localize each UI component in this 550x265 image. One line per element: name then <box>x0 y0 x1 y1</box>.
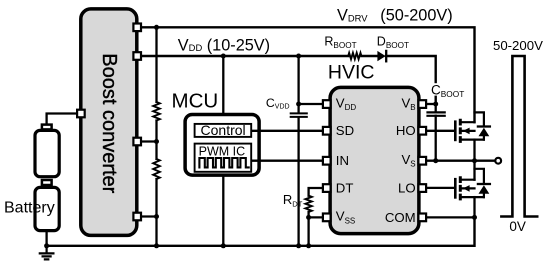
wire VDD pin <box>299 103 322 105</box>
output node circle <box>495 158 501 164</box>
battery cell 1 terminal nub <box>42 125 52 130</box>
capacitor CBOOT <box>435 104 437 161</box>
svg-text:PWM IC: PWM IC <box>199 144 246 158</box>
transistor Q2 (low side MOSFET) <box>455 161 484 218</box>
node rail2/MCU <box>221 54 226 59</box>
wire battery to boost <box>47 114 76 124</box>
node rail1/divider <box>154 25 159 30</box>
svg-text:DT: DT <box>336 180 354 195</box>
wire VB pin <box>427 103 436 105</box>
pin HO <box>418 127 426 135</box>
pin VDD <box>323 100 331 108</box>
node CVDD/ground <box>296 243 301 248</box>
node divider tap lower <box>154 214 159 219</box>
wire SD (MCU to HVIC) <box>252 130 322 132</box>
wire VDRV rail (top) <box>142 27 475 122</box>
MCU block <box>185 115 259 176</box>
svg-text:Control: Control <box>201 122 246 138</box>
resistor divider wire <box>142 27 157 246</box>
node MCU/ground <box>221 243 226 248</box>
svg-text:HVIC: HVIC <box>328 61 375 83</box>
transistor Q1 (high side MOSFET) <box>455 119 484 161</box>
boost input terminal <box>77 110 85 118</box>
svg-text:SD: SD <box>336 123 354 138</box>
resistor R2 (divider bottom) <box>153 159 160 179</box>
output pulse waveform <box>501 56 537 217</box>
battery cell 1 <box>35 130 59 176</box>
boost converter block <box>81 9 137 236</box>
MCU PWM IC box <box>195 144 252 172</box>
pin COM <box>418 214 426 222</box>
svg-text:Battery: Battery <box>4 200 55 217</box>
wire MCU ground <box>222 177 224 246</box>
wire battery to ground rail <box>45 231 47 246</box>
node RDT/ground <box>306 243 311 248</box>
ground symbol <box>40 246 54 260</box>
battery cell 2 <box>35 187 59 230</box>
node VS/MOSFET <box>472 158 477 163</box>
boost terminal t2 <box>133 52 141 60</box>
resistor RDT <box>305 196 311 212</box>
svg-text:MCU: MCU <box>172 89 219 112</box>
svg-text:50-200V: 50-200V <box>493 38 543 53</box>
ground rail <box>47 217 475 245</box>
MCU control box <box>195 124 252 137</box>
node RDT/VSS <box>306 215 311 220</box>
resistor RDT wire <box>309 188 322 246</box>
wire HO to Q1 gate <box>427 130 455 132</box>
PWM square wave glyph <box>199 158 248 167</box>
resistor R1 (divider top) <box>153 102 160 120</box>
svg-text:LO: LO <box>398 180 416 195</box>
wire LO to Q2 gate <box>427 187 455 189</box>
wire MCU VDD supply <box>222 56 224 115</box>
diode Q2 body <box>475 169 490 197</box>
node divider tap upper <box>154 139 159 144</box>
capacitor CVDD <box>297 56 299 246</box>
svg-text:0V: 0V <box>509 219 526 234</box>
wire IN (MCU to HVIC) <box>252 160 322 162</box>
wire VS node <box>427 160 495 162</box>
boost terminal t3 <box>133 138 141 146</box>
wire VDD rail <box>142 56 436 104</box>
diode Q1 body <box>475 112 490 139</box>
pin DT <box>323 184 331 192</box>
pin LO <box>418 184 426 192</box>
resistor RBOOT <box>348 53 361 59</box>
svg-text:Boost converter: Boost converter <box>98 53 120 193</box>
svg-text:HO: HO <box>396 123 416 138</box>
pin IN <box>323 157 331 165</box>
pin VB <box>418 100 426 108</box>
svg-text:COM: COM <box>385 210 416 225</box>
node rail2/CVDD <box>296 54 301 59</box>
diode DBOOT <box>377 51 385 61</box>
node COM/source <box>472 215 477 220</box>
node VB/CBOOT <box>433 102 438 107</box>
wire COM <box>427 216 475 218</box>
HVIC body <box>330 87 419 233</box>
node VS/CBOOT <box>433 158 438 163</box>
svg-text:IN: IN <box>336 153 349 168</box>
node CVDD/VDD pin <box>296 102 301 107</box>
boost terminal t4 <box>133 213 141 221</box>
pin VSS <box>323 214 331 222</box>
boost terminal t1 <box>133 24 141 32</box>
node divider/ground <box>154 243 159 248</box>
pin VS <box>418 157 426 165</box>
pin SD <box>323 127 331 135</box>
node battery/ground <box>44 243 49 248</box>
battery cell 2 terminal nub <box>42 180 52 185</box>
